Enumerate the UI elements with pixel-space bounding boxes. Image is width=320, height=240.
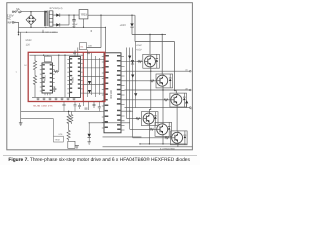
transformer T1 <box>45 11 53 28</box>
fuse F1 <box>15 11 22 13</box>
IGBT Q6 with HEXFRED diode <box>171 131 188 145</box>
node dot <box>105 27 106 28</box>
node dot <box>68 111 70 113</box>
node dot <box>150 71 151 72</box>
wire U1 top <box>47 55 49 56</box>
IC U2 <box>70 57 81 98</box>
diode D1 <box>52 14 62 17</box>
gate resistor RG6 <box>164 137 169 139</box>
wire: bottom AC <box>14 22 47 27</box>
wire: DC+ rail upper <box>132 34 166 36</box>
wire: +15V drop to logic <box>87 15 102 47</box>
resistor R3 horizontal <box>54 71 60 73</box>
ground GND1 <box>19 123 23 125</box>
diode arrow phase C <box>185 100 188 103</box>
wire: neutral stub rail <box>18 31 58 33</box>
interstage wires right compartment <box>83 50 104 97</box>
red divider <box>82 52 84 101</box>
node dot <box>42 32 43 33</box>
node dot <box>162 89 163 90</box>
wire: rectified node <box>62 15 79 25</box>
small box above U1 <box>44 56 51 62</box>
diode D7 <box>88 123 91 142</box>
ground GND2 <box>88 142 91 144</box>
tick <box>42 30 44 33</box>
node dot <box>139 143 140 144</box>
node dot <box>91 30 92 31</box>
wire: DC+ rail lower <box>135 42 176 94</box>
svg-text:IR2130: IR2130 <box>109 90 113 99</box>
gate resistor RG1 <box>137 61 142 63</box>
wire: ground return rail <box>47 26 106 28</box>
gate bundle vertical 4 <box>135 42 137 90</box>
node dot <box>149 34 150 35</box>
wire: DC- bus <box>140 143 187 145</box>
gate resistor RG2 <box>150 80 155 82</box>
diode D6 <box>88 90 91 93</box>
AC input terminal bottom <box>12 22 14 24</box>
wire: top AC bus <box>14 11 47 13</box>
node dot <box>83 27 84 28</box>
U1 pins <box>40 66 55 92</box>
U1 bottom stubs <box>45 93 50 95</box>
capacitor C2 <box>53 87 56 93</box>
wire: trim branch <box>21 119 54 137</box>
resistor R2 <box>33 74 36 85</box>
diode D4 +15V bus <box>131 60 134 64</box>
wire: phase A link <box>125 68 190 111</box>
node dot <box>18 34 19 35</box>
trim box 2 <box>54 136 64 142</box>
ground GND3 <box>75 146 79 148</box>
wire: bottom logic rail <box>21 110 102 112</box>
svg-text:MR-1-1806: MR-1-1806 <box>46 31 58 34</box>
svg-text:+15V: +15V <box>120 24 127 27</box>
svg-text:BYV26C(x4): BYV26C(x4) <box>50 7 63 10</box>
node dot <box>43 55 44 56</box>
wire: +15V rail <box>88 14 135 16</box>
wire: common return <box>20 32 22 123</box>
svg-text:Figure 7. Three-phase six-step: Figure 7. Three-phase six-step motor dri… <box>8 157 190 163</box>
bootstrap diode DB1 <box>128 56 131 59</box>
gate resistor RG4 <box>135 118 140 120</box>
wire: divider drop A <box>58 55 60 70</box>
wire: sense rail <box>103 146 193 148</box>
svg-text:TRIM: TRIM <box>55 139 60 142</box>
U2 pin labels <box>70 58 80 93</box>
node dot <box>26 32 27 33</box>
wire: emitter Q5 to bus <box>162 136 164 144</box>
svg-text:120: 120 <box>26 43 31 46</box>
node dot <box>131 15 132 16</box>
capacitor C1 100uF <box>72 15 75 27</box>
wire: mid rail <box>103 136 142 138</box>
IGBT Q4 with HEXFRED diode <box>141 112 158 126</box>
svg-text:+15V: +15V <box>136 48 142 51</box>
node dot <box>58 55 59 56</box>
wire: phase C link <box>125 104 190 131</box>
gate resistor RG3 <box>164 99 169 101</box>
wire U2 top <box>75 48 78 57</box>
wires below red box <box>83 102 94 111</box>
svg-text:+15V: +15V <box>136 44 142 47</box>
red highlight box <box>28 52 105 101</box>
small box pulse xfmr <box>80 43 87 50</box>
node dot <box>129 111 130 112</box>
border frame <box>7 3 193 150</box>
capacitor row C4..C9 <box>37 97 76 100</box>
svg-text:SUB 100 1%: SUB 100 1% <box>33 105 53 108</box>
IGBT Q3 with HEXFRED diode <box>170 93 187 107</box>
wire stub left <box>18 27 20 34</box>
node dot <box>68 14 69 15</box>
node dot <box>89 122 90 123</box>
resistor R4 <box>67 111 70 126</box>
internal bottom rail <box>32 96 81 98</box>
bridge rectifier BR1 <box>26 12 36 28</box>
gate bundle vertical 2 <box>130 48 158 130</box>
wire: phase B link <box>125 88 190 123</box>
resistor R1 <box>33 55 36 70</box>
wire: divider drop B <box>64 55 66 97</box>
gate bundle vertical 1 <box>127 48 142 119</box>
node dot <box>18 32 19 33</box>
svg-text:6 x HFA04TB60: 6 x HFA04TB60 <box>160 147 176 150</box>
diode D3 on +15V feed <box>130 15 133 34</box>
bootstrap diode DB2 <box>131 75 134 78</box>
node dot <box>73 27 74 28</box>
wire R2 bottom <box>34 71 36 98</box>
wire: vcc drop <box>104 27 106 53</box>
diode D5 <box>88 81 91 84</box>
node dot <box>100 15 101 16</box>
potentiometer R5 <box>67 126 70 141</box>
IGBT Q5 with HEXFRED diode <box>155 122 172 136</box>
IC U3 gate driver IR2130 <box>104 53 121 133</box>
top small caps right compartment <box>73 53 90 54</box>
node dot <box>162 34 163 35</box>
node dot <box>162 143 163 144</box>
IGBT Q2 with HEXFRED diode <box>156 74 173 88</box>
regulator U4 7815 <box>79 10 88 28</box>
gate bundle vertical 3 <box>133 48 172 138</box>
caption separator <box>3 155 197 157</box>
node dot <box>73 14 74 15</box>
U1 pin labels <box>43 64 52 91</box>
wire: emitter Q4 to bus <box>148 126 150 144</box>
node dot bridge bottom <box>30 27 31 28</box>
node dot bridge top <box>30 11 31 12</box>
U3 pin labels left <box>105 55 109 128</box>
node dot <box>64 55 65 56</box>
bootstrap diode DB3 <box>134 93 137 96</box>
IC U1 timer <box>42 63 53 93</box>
wire: comparator line <box>89 122 130 124</box>
gate resistor RG5 <box>149 128 154 130</box>
resistor R6 <box>70 111 73 124</box>
IGBT Q1 with HEXFRED diode <box>143 54 160 68</box>
terminal phase B <box>190 89 192 91</box>
wire: second supply drop <box>134 15 136 41</box>
wire: collector drop Q2 <box>161 35 163 74</box>
trim box <box>68 141 75 148</box>
U3 right pins <box>121 57 171 131</box>
wire: collector drop Q1 <box>149 35 151 55</box>
diode D2 <box>52 23 69 26</box>
wire: emitter Q6 to bus <box>177 145 179 147</box>
small parts below red box <box>63 102 101 112</box>
node dot <box>149 143 150 144</box>
terminal phase C <box>190 107 192 109</box>
U3 pin labels right <box>117 55 121 130</box>
wire: logic top rail <box>30 54 84 56</box>
U3 left pins <box>102 57 104 129</box>
terminal phase A <box>190 70 192 72</box>
AC input terminal top <box>12 11 14 13</box>
svg-text:7815: 7815 <box>81 12 88 16</box>
U2 pins <box>67 60 82 94</box>
wire bundle v5 <box>135 90 137 108</box>
svg-text:MUR: MUR <box>26 39 32 42</box>
